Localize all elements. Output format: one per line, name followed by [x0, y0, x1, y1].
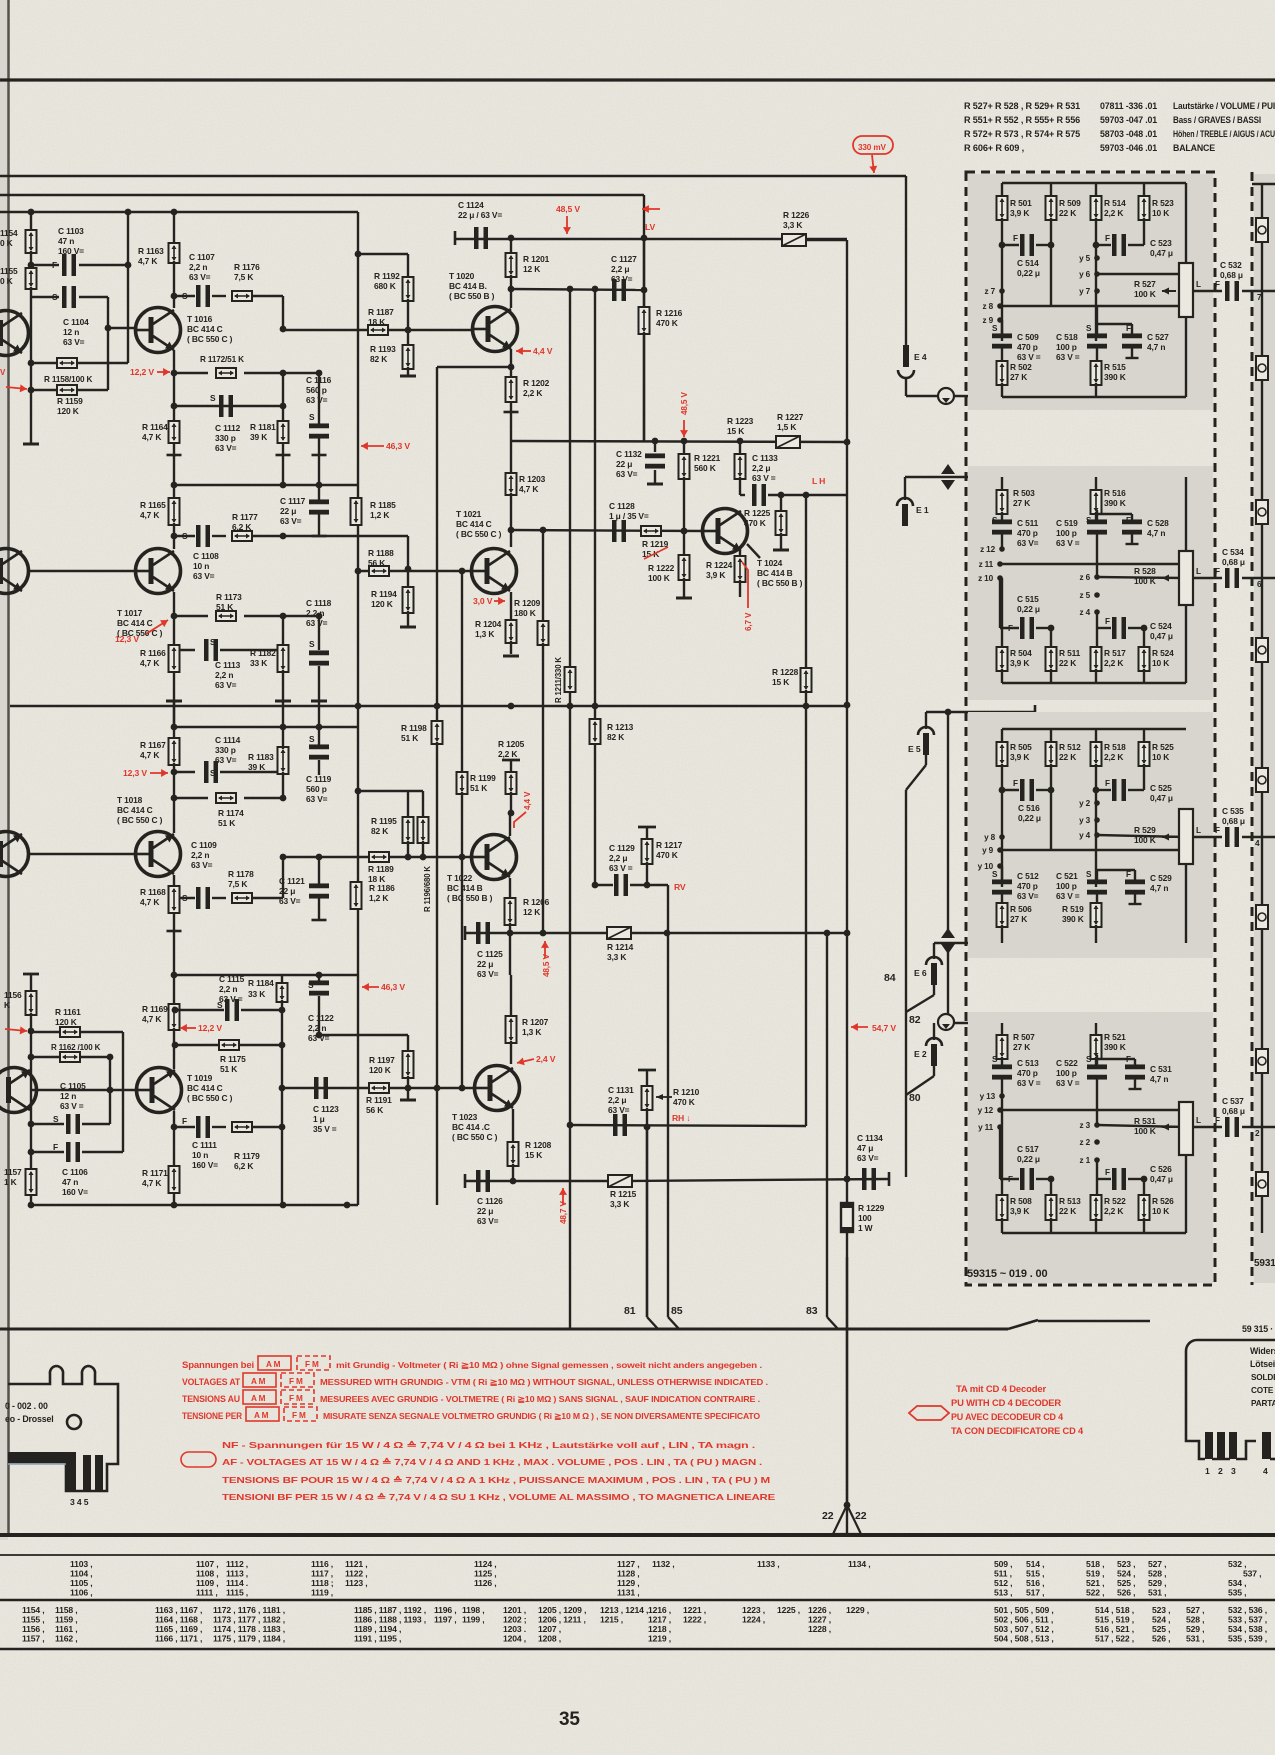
svg-text:33 K: 33 K — [248, 989, 265, 999]
svg-text:3,3 K: 3,3 K — [607, 952, 626, 962]
svg-text:535 , 539 ,: 535 , 539 , — [1228, 1634, 1267, 1644]
svg-text:1196 ,: 1196 , — [434, 1605, 457, 1615]
junction — [507, 930, 514, 937]
svg-text:1229 ,: 1229 , — [846, 1605, 869, 1615]
svg-text:51 K: 51 K — [218, 818, 235, 828]
svg-text:E 4: E 4 — [914, 352, 927, 362]
svg-text:R 1195: R 1195 — [371, 816, 397, 826]
svg-text:48,5 V: 48,5 V — [542, 954, 551, 977]
wire block C top rail — [1002, 728, 1186, 730]
node y4 — [1094, 832, 1100, 838]
transistor T1023 — [475, 1066, 520, 1111]
node y7 — [1094, 288, 1100, 294]
resistor R519 — [1091, 903, 1102, 927]
resistor R1182 — [278, 645, 289, 672]
svg-text:15 K: 15 K — [772, 677, 789, 687]
svg-text:330 p: 330 p — [215, 745, 236, 755]
connector E2 — [933, 1023, 935, 1040]
svg-text:560 p: 560 p — [306, 385, 327, 395]
resistor R516 — [1095, 477, 1097, 492]
ground — [400, 626, 416, 629]
svg-text:2,4 V: 2,4 V — [536, 1054, 556, 1064]
wire — [1002, 682, 1186, 684]
node z3 — [1094, 1122, 1100, 1128]
transistor T1022 — [472, 835, 517, 880]
svg-text:4,4 V: 4,4 V — [533, 346, 553, 356]
svg-text:z 11: z 11 — [979, 560, 994, 569]
wire block A bottom rail — [954, 396, 1186, 397]
svg-text:4,7 K: 4,7 K — [142, 432, 161, 442]
wire corridor x948 — [947, 712, 949, 930]
svg-text:C 521: C 521 — [1056, 871, 1078, 881]
svg-text:C 1126: C 1126 — [477, 1196, 503, 1206]
svg-text:Lötseit: Lötseit — [1250, 1359, 1275, 1369]
svg-text:12 K: 12 K — [523, 264, 540, 274]
capacitor C1122 — [318, 975, 320, 981]
resistor R1173 — [174, 615, 208, 617]
svg-text:0,68 μ: 0,68 μ — [1222, 816, 1245, 826]
junction — [171, 1124, 178, 1131]
capacitor C1123 — [314, 1077, 328, 1099]
svg-text:390 K: 390 K — [1104, 498, 1126, 508]
resistor R1191 — [369, 1083, 389, 1093]
svg-text:0,47 μ: 0,47 μ — [1150, 631, 1173, 641]
svg-text:470 p: 470 p — [1017, 342, 1038, 352]
capacitor C1125 — [476, 922, 490, 944]
svg-text:R 1163: R 1163 — [138, 246, 164, 256]
svg-text:R 523: R 523 — [1152, 198, 1174, 208]
svg-text:A M: A M — [254, 1411, 269, 1420]
resistor R1195 — [358, 790, 423, 792]
svg-text:C 526: C 526 — [1150, 1164, 1172, 1174]
svg-text:4,7 K: 4,7 K — [519, 484, 538, 494]
svg-text:22 K: 22 K — [1059, 208, 1076, 218]
svg-text:BC 414 C: BC 414 C — [117, 618, 153, 628]
svg-text:27 K: 27 K — [1013, 498, 1030, 508]
connector pin 3 — [1229, 1432, 1237, 1459]
wire LV rail 195 — [0, 194, 644, 196]
svg-text:C 517: C 517 — [1017, 1144, 1039, 1154]
resistor R1163 — [173, 212, 175, 245]
svg-text:C 518: C 518 — [1056, 332, 1078, 342]
svg-text:C 1109: C 1109 — [191, 840, 217, 850]
svg-text:63 V=: 63 V= — [306, 395, 328, 405]
svg-text:56 K: 56 K — [366, 1105, 383, 1115]
svg-text:1197 ,: 1197 , — [434, 1615, 457, 1625]
svg-text:( BC 550 B ): ( BC 550 B ) — [449, 291, 495, 301]
svg-text:1186 , 1188 , 1193 ,: 1186 , 1188 , 1193 , — [354, 1615, 426, 1625]
svg-text:R 511: R 511 — [1059, 648, 1081, 658]
choke pin 4 — [83, 1455, 91, 1491]
svg-text:330 mV: 330 mV — [858, 143, 886, 152]
resistor R1179 — [232, 1122, 252, 1132]
svg-text:35: 35 — [559, 1709, 580, 1730]
svg-text:10 K: 10 K — [1152, 752, 1169, 762]
resistor R1167 — [173, 727, 175, 740]
node z9 — [997, 317, 1003, 323]
svg-text:2,2 μ: 2,2 μ — [608, 1095, 626, 1105]
svg-text:K: K — [4, 1000, 10, 1010]
svg-text:S: S — [53, 1114, 59, 1124]
resistor R1192 — [403, 277, 414, 301]
wire x570 column — [569, 289, 571, 1329]
svg-text:1163 , 1167 ,: 1163 , 1167 , — [155, 1605, 202, 1615]
junction — [508, 235, 515, 242]
svg-text:F: F — [1013, 779, 1018, 788]
svg-text:MISURATE SENZA SEGNALE VOLT: MISURATE SENZA SEGNALE VOLTMETRO GRUNDIG… — [323, 1411, 761, 1421]
svg-text:R 1192: R 1192 — [374, 271, 400, 281]
svg-text:Lautstärke / VOLUME / PUI: Lautstärke / VOLUME / PUI — [1173, 101, 1275, 111]
svg-text:1207 ,: 1207 , — [538, 1624, 561, 1634]
svg-text:3,9 K: 3,9 K — [1010, 1206, 1029, 1216]
wire collector chain down — [173, 1111, 175, 1205]
svg-text:1201 ,: 1201 , — [503, 1605, 526, 1615]
resistor R1194 — [407, 536, 409, 569]
svg-text:C 535: C 535 — [1222, 806, 1244, 816]
resistor R1174 — [174, 797, 208, 799]
svg-text:T 1022: T 1022 — [447, 873, 473, 883]
svg-text:3,3 K: 3,3 K — [610, 1199, 629, 1209]
svg-text:4,7 K: 4,7 K — [140, 897, 159, 907]
svg-text:NF - Spannungen für 15 W / 4: NF - Spannungen für 15 W / 4 Ω ≙ 7,74 V … — [222, 1440, 755, 1450]
junction — [540, 930, 547, 937]
svg-text:C 519: C 519 — [1056, 518, 1078, 528]
wire input rail 212 — [0, 211, 358, 213]
svg-text:C 1132: C 1132 — [616, 449, 642, 459]
junction — [280, 370, 287, 377]
svg-text:22 μ: 22 μ — [477, 959, 493, 969]
svg-text:R 531: R 531 — [1134, 1116, 1156, 1126]
resistor R1181 — [278, 421, 289, 443]
svg-text:1118 ;: 1118 ; — [311, 1578, 334, 1588]
svg-text:R 1194: R 1194 — [371, 589, 397, 599]
svg-text:2,2 K: 2,2 K — [1104, 658, 1123, 668]
svg-text:1215 ,: 1215 , — [600, 1615, 623, 1625]
resistor R517 — [1096, 628, 1098, 649]
svg-text:R 501: R 501 — [1010, 198, 1032, 208]
svg-text:R 1168: R 1168 — [140, 887, 166, 897]
svg-text:120 K: 120 K — [55, 1017, 77, 1027]
node y3 — [1094, 817, 1100, 823]
svg-text:1 μ: 1 μ — [313, 1114, 325, 1124]
svg-text:100 p: 100 p — [1056, 342, 1077, 352]
junction — [508, 527, 515, 534]
svg-text:TA CON DECDIFICATORE CD 4: TA CON DECDIFICATORE CD 4 — [951, 1426, 1083, 1436]
svg-text:27 K: 27 K — [1010, 914, 1027, 924]
svg-text:63 V =: 63 V = — [219, 994, 243, 1004]
svg-text:L: L — [1196, 567, 1201, 576]
svg-text:10 K: 10 K — [1152, 208, 1169, 218]
svg-text:82 K: 82 K — [370, 354, 387, 364]
svg-text:S: S — [210, 393, 216, 403]
svg-text:L: L — [1196, 280, 1201, 289]
svg-text:PU AVEC DECODEUR CD 4: PU AVEC DECODEUR CD 4 — [951, 1412, 1063, 1422]
svg-text:10 n: 10 n — [193, 561, 209, 571]
svg-text:R 509: R 509 — [1059, 198, 1081, 208]
svg-text:R 572+ R 573 , R 574+ R 575: R 572+ R 573 , R 574+ R 575 — [964, 129, 1080, 139]
svg-text:Bass / GRAVES / BASSI: Bass / GRAVES / BASSI — [1173, 115, 1261, 125]
wire emitter T1016 — [173, 350, 175, 457]
svg-text:63 V =: 63 V = — [1056, 1078, 1080, 1088]
svg-text:1185 , 1187 , 1192 ,: 1185 , 1187 , 1192 , — [354, 1605, 426, 1615]
svg-text:516 , 521 ,: 516 , 521 , — [1095, 1624, 1134, 1634]
svg-text:6,2 K: 6,2 K — [234, 1161, 253, 1171]
resistor R501 — [997, 196, 1008, 220]
svg-text:R 524: R 524 — [1152, 648, 1174, 658]
svg-text:F: F — [53, 1142, 58, 1152]
tick — [166, 700, 182, 703]
svg-text:533 , 537 ,: 533 , 537 , — [1228, 1615, 1267, 1625]
svg-text:522 ,: 522 , — [1086, 1588, 1104, 1598]
wire — [282, 727, 284, 749]
wire top supply rail 176 — [0, 175, 906, 177]
svg-text:C 1117: C 1117 — [280, 496, 306, 506]
svg-text:63 V=: 63 V= — [306, 794, 328, 804]
svg-text:2,2 n: 2,2 n — [215, 670, 233, 680]
svg-text:2,2 K: 2,2 K — [1104, 1206, 1123, 1216]
svg-text:1227 ,: 1227 , — [808, 1615, 831, 1625]
potentiometer R528 — [1185, 477, 1187, 551]
svg-text:T 1020: T 1020 — [449, 271, 475, 281]
svg-text:529 ,: 529 , — [1148, 1578, 1166, 1588]
svg-text:529 ,: 529 , — [1186, 1624, 1204, 1634]
svg-text:Spannungen bei: Spannungen bei — [182, 1360, 254, 1370]
svg-text:100 p: 100 p — [1056, 528, 1077, 538]
svg-text:R 1198: R 1198 — [401, 723, 427, 733]
wire base T1023 y1088 — [282, 1087, 475, 1089]
svg-text:A M: A M — [266, 1360, 281, 1369]
svg-text:1204 ,: 1204 , — [503, 1634, 526, 1644]
svg-text:R 515: R 515 — [1104, 362, 1126, 372]
resistor R1215 — [608, 1175, 632, 1187]
svg-text:R 1162 /100 K: R 1162 /100 K — [51, 1043, 101, 1052]
svg-text:537 ,: 537 , — [1243, 1569, 1261, 1579]
svg-text:COTE S: COTE S — [1251, 1386, 1275, 1395]
svg-text:1156 ,: 1156 , — [22, 1624, 45, 1634]
svg-text:63 V=: 63 V= — [477, 969, 499, 979]
svg-text:0,47 μ: 0,47 μ — [1150, 248, 1173, 258]
svg-text:y 5: y 5 — [1079, 254, 1091, 263]
svg-text:y 2: y 2 — [1079, 799, 1091, 808]
wire emitter — [173, 592, 175, 727]
svg-text:4,7 K: 4,7 K — [140, 750, 159, 760]
ground — [676, 597, 692, 600]
svg-text:3,9 K: 3,9 K — [1010, 208, 1029, 218]
svg-text:R 1214: R 1214 — [607, 942, 634, 952]
svg-text:1165 , 1169 ,: 1165 , 1169 , — [155, 1624, 202, 1634]
svg-text:R 529: R 529 — [1134, 825, 1156, 835]
svg-text:4: 4 — [1263, 1466, 1268, 1476]
junction — [172, 1007, 179, 1014]
svg-text:R 1222: R 1222 — [648, 563, 675, 573]
svg-text:y 4: y 4 — [1079, 831, 1091, 840]
connector E5 — [925, 712, 927, 729]
svg-text:C 529: C 529 — [1150, 873, 1172, 883]
svg-text:1103 ,: 1103 , — [70, 1559, 93, 1569]
junction — [107, 1087, 114, 1094]
resistor R1208 — [508, 1142, 519, 1166]
connector E6 — [933, 943, 935, 959]
svg-text:524 ,: 524 , — [1152, 1615, 1170, 1625]
connector circle — [938, 388, 954, 404]
svg-text:63 V =: 63 V = — [1056, 891, 1080, 901]
svg-text:1175 , 1179 , 1184 ,: 1175 , 1179 , 1184 , — [213, 1634, 285, 1644]
transistor T1019 — [137, 1068, 182, 1113]
svg-text:470 K: 470 K — [656, 318, 678, 328]
svg-text:15 K: 15 K — [525, 1150, 542, 1160]
svg-text:( BC 550 C ): ( BC 550 C ) — [117, 815, 163, 825]
resistor R1204 — [506, 620, 517, 643]
connector pin 4 — [1262, 1432, 1271, 1459]
resistor R514 — [1091, 196, 1102, 220]
svg-text:Widers: Widers — [1250, 1346, 1275, 1356]
svg-text:1129 ,: 1129 , — [617, 1578, 640, 1588]
svg-text:1109 ,: 1109 , — [196, 1578, 219, 1588]
svg-text:1108 ,: 1108 , — [196, 1569, 219, 1579]
svg-text:z 3: z 3 — [1080, 1121, 1091, 1130]
AF oval — [181, 1452, 216, 1467]
arrow to table — [833, 1505, 861, 1534]
svg-text:PARTA: PARTA — [1251, 1399, 1275, 1408]
junction — [355, 703, 362, 710]
resistor R1211 — [565, 667, 576, 692]
svg-text:C 1107: C 1107 — [189, 252, 215, 262]
svg-text:58703 -048 .01: 58703 -048 .01 — [1100, 129, 1157, 139]
resistor R524 — [1139, 647, 1150, 671]
svg-text:1132 ,: 1132 , — [652, 1559, 675, 1569]
resistor R504 — [1001, 578, 1003, 649]
svg-text:81: 81 — [624, 1305, 636, 1317]
svg-text:C 1105: C 1105 — [60, 1081, 86, 1091]
resistor R1165 — [173, 485, 175, 500]
svg-text:1174 , 1178 . 1183 ,: 1174 , 1178 . 1183 , — [213, 1624, 285, 1634]
svg-text:63 V =: 63 V = — [1056, 352, 1080, 362]
node z4 — [1094, 609, 1100, 615]
svg-text:R 504: R 504 — [1010, 648, 1032, 658]
svg-text:518 ,: 518 , — [1086, 1559, 1104, 1569]
wire base branch — [283, 615, 319, 617]
junction — [681, 528, 688, 535]
svg-text:C 1118: C 1118 — [306, 598, 332, 608]
svg-text:R 525: R 525 — [1152, 742, 1174, 752]
svg-text:2,2 μ: 2,2 μ — [611, 264, 629, 274]
svg-text:C 527: C 527 — [1147, 332, 1169, 342]
svg-text:22 μ: 22 μ — [279, 886, 295, 896]
node y2 — [1094, 800, 1100, 806]
svg-text:1213 , 1214 ,: 1213 , 1214 , — [600, 1605, 648, 1615]
svg-text:C 1125: C 1125 — [477, 949, 503, 959]
svg-text:27 K: 27 K — [1010, 372, 1027, 382]
wire cap row y406 — [174, 405, 283, 407]
svg-text:T 1016: T 1016 — [187, 314, 213, 324]
svg-text:18 K: 18 K — [368, 874, 385, 884]
svg-text:160 V=: 160 V= — [58, 246, 84, 256]
svg-text:3,9 K: 3,9 K — [1010, 658, 1029, 668]
connector circle block D — [938, 1014, 954, 1030]
svg-text:R 1187: R 1187 — [368, 307, 394, 317]
svg-text:46,3 V: 46,3 V — [386, 441, 410, 451]
resistor R1171 — [169, 1166, 180, 1193]
svg-text:59 315 · 0: 59 315 · 0 — [1242, 1324, 1275, 1334]
svg-text:2,2 n: 2,2 n — [189, 262, 207, 272]
svg-text:C 516: C 516 — [1018, 803, 1040, 813]
svg-text:502 , 506 , 511 ,: 502 , 506 , 511 , — [994, 1615, 1053, 1625]
svg-text:3,3 K: 3,3 K — [783, 220, 802, 230]
svg-text:S: S — [309, 412, 315, 422]
resistor R1224 — [739, 551, 741, 558]
svg-text:L: L — [1196, 826, 1201, 835]
svg-text:E 5: E 5 — [908, 744, 921, 754]
svg-text:0,68 μ: 0,68 μ — [1222, 1106, 1245, 1116]
svg-text:1156: 1156 — [4, 990, 22, 1000]
node z12 — [999, 546, 1005, 552]
resistor R513 — [1046, 1195, 1057, 1220]
svg-text:1 W: 1 W — [858, 1223, 873, 1233]
svg-text:1134 ,: 1134 , — [848, 1559, 871, 1569]
svg-text:C 1122: C 1122 — [308, 1013, 334, 1023]
svg-text:1128 ,: 1128 , — [617, 1569, 640, 1579]
wire 48,5V line — [455, 238, 847, 240]
svg-text:12,3 V: 12,3 V — [123, 768, 147, 778]
junction — [510, 1178, 517, 1185]
svg-text:7,5 K: 7,5 K — [228, 879, 247, 889]
svg-text:1154 ,: 1154 , — [22, 1605, 45, 1615]
svg-text:C 509: C 509 — [1017, 332, 1039, 342]
svg-text:15 K: 15 K — [642, 549, 659, 559]
svg-text:R 516: R 516 — [1104, 488, 1126, 498]
resistor R1227 — [776, 436, 800, 448]
svg-text:1126 ,: 1126 , — [474, 1578, 497, 1588]
svg-text:100 K: 100 K — [1134, 576, 1156, 586]
svg-text:y 3: y 3 — [1079, 816, 1091, 825]
svg-text:S: S — [1086, 324, 1092, 333]
resistor R1229 — [841, 1203, 853, 1232]
svg-text:R 506: R 506 — [1010, 904, 1032, 914]
svg-text:( BC 550 C ): ( BC 550 C ) — [456, 529, 502, 539]
svg-text:120 K: 120 K — [57, 406, 79, 416]
resistor R1159 — [57, 385, 77, 395]
svg-text:1,3 K: 1,3 K — [522, 1027, 541, 1037]
svg-text:L H: L H — [812, 476, 825, 486]
svg-text:2,2 μ: 2,2 μ — [609, 853, 627, 863]
svg-text:1162 ,: 1162 , — [55, 1634, 78, 1644]
svg-text:63 V=: 63 V= — [608, 1105, 630, 1115]
svg-text:C 1104: C 1104 — [63, 317, 89, 327]
junction — [171, 613, 178, 620]
svg-text:VOLTAGES AT: VOLTAGES AT — [182, 1377, 241, 1387]
svg-text:C 1127: C 1127 — [611, 254, 637, 264]
svg-text:R 1203: R 1203 — [519, 474, 546, 484]
svg-text:z 4: z 4 — [1080, 608, 1091, 617]
svg-text:0,22 μ: 0,22 μ — [1017, 1154, 1040, 1164]
svg-text:R 1182: R 1182 — [250, 648, 276, 658]
svg-text:z 10: z 10 — [978, 574, 993, 583]
svg-text:1104 ,: 1104 , — [70, 1569, 93, 1579]
svg-text:525 ,: 525 , — [1152, 1624, 1170, 1634]
svg-text:534 ,: 534 , — [1228, 1578, 1246, 1588]
svg-text:z 1: z 1 — [1080, 1156, 1091, 1165]
svg-text:85: 85 — [671, 1305, 683, 1317]
svg-text:1127 ,: 1127 , — [617, 1559, 640, 1569]
svg-text:T 1021: T 1021 — [456, 509, 482, 519]
wire — [1000, 1109, 1181, 1111]
svg-text:517 ,: 517 , — [1026, 1588, 1044, 1598]
svg-text:4,4 V: 4,4 V — [523, 791, 532, 810]
svg-text:1161 ,: 1161 , — [55, 1624, 78, 1634]
svg-text:y 8: y 8 — [984, 833, 996, 842]
svg-text:18 K: 18 K — [368, 317, 385, 327]
svg-text:0,22 μ: 0,22 μ — [1017, 268, 1040, 278]
